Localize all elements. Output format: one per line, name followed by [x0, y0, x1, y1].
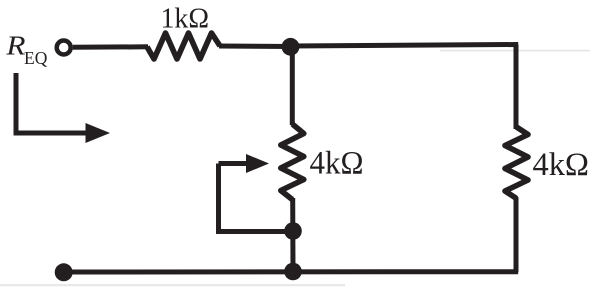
svg-text:R: R: [5, 31, 25, 61]
bottom wire: [63, 269, 518, 274]
resistor R3 4kΩ (right vertical zigzag): [505, 127, 528, 199]
node C (bottom junction dot): [284, 263, 302, 281]
wire: R2 bottom lead: [290, 198, 295, 272]
wire: top node to right corner: [290, 45, 518, 47]
label R_EQ: [5, 31, 47, 68]
wire: R1 to top node: [219, 44, 292, 50]
svg-text:EQ: EQ: [24, 48, 48, 68]
svg-text:4kΩ: 4kΩ: [533, 147, 590, 183]
current arrow (R_EQ direction): [16, 73, 110, 143]
wire: right vertical top: [514, 45, 519, 130]
resistor R1 1kΩ (horizontal zigzag): [147, 33, 220, 59]
terminal dot (bottom-left): [55, 263, 73, 281]
terminal T1 (open circle input): [57, 41, 71, 55]
wire: terminal to R1: [73, 44, 148, 50]
wire: right vertical bottom: [514, 197, 519, 272]
scan artifact: faint band below bottom wire: [0, 284, 345, 286]
scan artifact: faint line under top wire: [440, 50, 590, 52]
wiper arrow (points at R2): [219, 154, 270, 173]
wiper wire (L-shape to node B): [219, 164, 291, 232]
svg-text:4kΩ: 4kΩ: [310, 146, 364, 182]
node A (top junction dot): [282, 38, 300, 56]
svg-text:1kΩ: 1kΩ: [161, 3, 210, 35]
potentiometer R2 4kΩ (middle vertical zigzag): [281, 124, 304, 200]
node B (wiper junction dot): [284, 222, 302, 240]
wire: middle vertical top (node A to R2): [290, 47, 295, 126]
